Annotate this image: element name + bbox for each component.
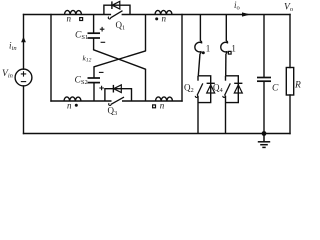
svg-text:CS1: CS1 — [75, 31, 88, 42]
switch Q1 with antiparallel diode — [104, 1, 130, 19]
wire right rail x=290 through R — [289, 15, 291, 134]
wire cross-link vertical x=145.5 — [145, 15, 147, 102]
node output junction — [262, 131, 267, 136]
svg-text:n: n — [67, 101, 72, 111]
resistor R — [286, 68, 293, 96]
transformer secondary winding 1 — [195, 15, 202, 76]
current arrow i_in — [21, 37, 26, 43]
inductor L3 bottom-left (n) — [64, 97, 81, 101]
wire right branch vertical x=182 — [181, 15, 183, 102]
current arrow i_o — [242, 12, 251, 16]
polarity dot secondary 2 (square) — [228, 51, 231, 54]
svg-text:Vin: Vin — [2, 69, 13, 80]
svg-text:k12: k12 — [83, 54, 92, 64]
svg-text:CS2: CS2 — [75, 76, 88, 87]
wire cross-link diagonals — [94, 50, 146, 69]
svg-text:1: 1 — [206, 44, 211, 54]
svg-text:iin: iin — [9, 41, 17, 53]
wire input branch vertical x=51 — [50, 15, 52, 102]
capacitor C — [257, 15, 271, 134]
wire bottom rail — [24, 133, 291, 135]
polarity dot secondary 1 (round) — [202, 51, 205, 54]
capacitor CS1 — [88, 27, 106, 50]
capacitor CS2 — [88, 67, 104, 101]
svg-text:Q4: Q4 — [213, 83, 224, 95]
polarity dot L3 (round) — [75, 104, 78, 107]
svg-text:Q2: Q2 — [184, 83, 194, 95]
inductor L2 top-right (n) — [155, 10, 172, 14]
svg-text:Q3: Q3 — [108, 106, 118, 118]
wire left rail lower (Vin to bottom rail) — [23, 86, 25, 134]
svg-text:1: 1 — [231, 44, 236, 54]
svg-text:R: R — [294, 81, 301, 91]
transformer secondary winding 2 — [221, 15, 228, 76]
polarity dot L2 (round) — [155, 17, 158, 20]
svg-text:n: n — [67, 14, 72, 24]
wire lower rail y=101 — [51, 100, 182, 102]
inductor L1 top-left (n) — [65, 10, 82, 14]
node A (coil1 / CS1 / Q1 junction) wire — [93, 15, 95, 34]
svg-text:n: n — [162, 14, 167, 24]
wire left rail upper (Vin to top-left corner) — [23, 15, 25, 70]
svg-text:n: n — [160, 101, 165, 111]
switch Q4 with antiparallel diode — [223, 76, 243, 134]
voltage source Vin — [15, 69, 32, 86]
svg-text:Q1: Q1 — [116, 20, 126, 32]
wire top rail — [24, 14, 291, 16]
svg-text:Vo: Vo — [284, 3, 293, 14]
switch Q2 with antiparallel diode — [195, 76, 214, 134]
switch Q3 with antiparallel diode — [105, 85, 132, 106]
ground — [258, 134, 270, 148]
inductor L4 bottom-right (n) — [156, 97, 173, 101]
polarity dot L4 (square) — [153, 105, 156, 108]
polarity dot L1 (square) — [80, 18, 83, 21]
svg-text:C: C — [272, 84, 279, 94]
svg-text:io: io — [234, 0, 240, 12]
